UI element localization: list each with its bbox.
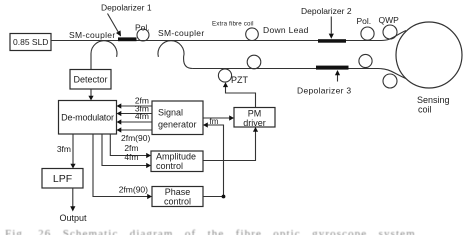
svg-text:Depolarizer 1: Depolarizer 1 — [101, 3, 152, 13]
arrowhead: detector to de-modulator — [88, 96, 93, 101]
wire: amplitude control output to PM driver bottom — [203, 132, 256, 161]
PM driver box — [234, 108, 275, 128]
arrowhead: into de-modulator 2fm — [117, 103, 122, 108]
svg-text:Signal: Signal — [158, 108, 183, 118]
svg-text:LPF: LPF — [53, 173, 72, 185]
arrowhead: into de-modulator 2fm(90) — [117, 127, 122, 132]
QWP loop (lower) — [383, 74, 397, 88]
wire: detector to de-modulator — [90, 89, 92, 97]
svg-text:Down Lead: Down Lead — [263, 25, 309, 35]
depolarizer D1 bar — [118, 37, 137, 41]
svg-text:4fm: 4fm — [124, 152, 138, 162]
wire: LPF to output — [72, 188, 74, 207]
svg-text:QWP: QWP — [379, 15, 400, 25]
wire: SLD output to coupler1 / top fiber line to sensing coil — [51, 31, 406, 41]
arrowhead: into PM driver bottom — [253, 127, 258, 132]
svg-text:Amplitude: Amplitude — [156, 152, 196, 162]
polarizer loop Pol1 — [137, 29, 149, 41]
Detector box — [70, 70, 111, 90]
svg-text:generator: generator — [158, 120, 197, 130]
depolarizer 3 pointer line — [337, 75, 339, 82]
svg-text:PM: PM — [248, 109, 262, 119]
svg-text:Depolarizer 2: Depolarizer 2 — [301, 6, 352, 16]
arrowhead: fm into signal generator — [203, 122, 208, 127]
arrowhead: depolarizer 1 pointer — [116, 30, 121, 36]
SM-coupler 1 (fiber coupler arc with drop to detector) — [91, 41, 117, 70]
arrowhead: depolarizer 3 pointer — [335, 70, 340, 75]
Signal generator box — [152, 101, 203, 135]
wire: phase control output to feedback node — [203, 196, 224, 198]
depolarizer 2 pointer line — [330, 17, 332, 34]
svg-text:De-modulator: De-modulator — [61, 113, 114, 123]
depolarizer 1 pointer line — [108, 14, 119, 33]
junction node: phase control feedback — [222, 195, 226, 199]
wire: lower fiber line from coupler2 to sensing coil — [193, 69, 406, 79]
svg-text:Pol.: Pol. — [357, 16, 372, 26]
svg-text:Pol.: Pol. — [135, 23, 150, 33]
svg-text:Phase: Phase — [165, 187, 191, 197]
svg-text:coil: coil — [418, 105, 432, 115]
arrowhead: into de-modulator 4fm — [117, 119, 122, 124]
svg-text:0.85 SLD: 0.85 SLD — [13, 37, 48, 47]
svg-text:Depolarizer 3: Depolarizer 3 — [297, 86, 351, 96]
arrowhead: into phase control — [147, 194, 152, 199]
extra fibre coil loop (top line) — [246, 28, 259, 41]
arrowhead: into LPF — [70, 164, 75, 169]
wire: de-modulator 2fm(90) to phase control — [93, 134, 148, 197]
wire: signal generator to PM driver — [203, 117, 230, 119]
Amplitude control box — [151, 151, 203, 172]
wire: de-modulator 4fm to amplitude control — [102, 134, 147, 166]
svg-text:Output: Output — [59, 213, 87, 223]
wire: signal generator 2fm to de-modulator — [121, 105, 152, 107]
SM-coupler 2 (fiber coupler arc joining lower line) — [158, 41, 193, 69]
depolarizer D3 bar — [316, 66, 349, 70]
fibre loop on lower line — [247, 55, 261, 69]
LPF box — [42, 169, 83, 189]
svg-text:2fm(90): 2fm(90) — [121, 133, 150, 143]
wire: de-modulator 3fm to LPF — [72, 134, 74, 164]
svg-text:PZT: PZT — [231, 75, 249, 85]
svg-text:Sensing: Sensing — [417, 95, 450, 105]
arrowhead: into PM driver left — [229, 115, 234, 120]
svg-text:3fm: 3fm — [57, 144, 71, 154]
polarizer loop (lower right) — [359, 54, 372, 67]
svg-text:Detector: Detector — [73, 75, 107, 85]
svg-text:control: control — [156, 161, 183, 171]
arrowhead: output — [70, 206, 75, 211]
svg-text:Fig. 26 Schematic diagram of t: Fig. 26 Schematic diagram of the fibre o… — [5, 228, 416, 235]
wire: phase control feedback fm into signal generator — [208, 125, 224, 197]
sensing coil (fiber loop) — [396, 22, 462, 88]
svg-text:2fm(90): 2fm(90) — [119, 185, 148, 195]
SLD source box U1 — [10, 34, 51, 51]
svg-text:4fm: 4fm — [135, 111, 149, 121]
wire: signal generator 3fm to de-modulator — [121, 113, 152, 115]
wire: signal generator 4fm to de-modulator — [121, 121, 152, 123]
De-modulator box — [59, 101, 117, 135]
svg-text:SM-coupler: SM-coupler — [69, 30, 115, 40]
svg-text:SM-coupler: SM-coupler — [158, 28, 204, 38]
PZT transducer loop — [218, 69, 231, 82]
arrowhead: into de-modulator 3fm — [117, 111, 122, 116]
depolarizer D2 bar — [318, 39, 346, 43]
polarizer loop Pol2 (top right) — [361, 27, 374, 40]
svg-text:Extra fibre coil: Extra fibre coil — [212, 21, 254, 28]
wire: PM driver output to PZT — [226, 87, 256, 108]
arrowhead: into PZT — [223, 82, 228, 87]
svg-text:fm: fm — [210, 117, 219, 126]
Phase control box — [152, 187, 203, 207]
wire: de-modulator 2fm to amplitude control — [110, 134, 146, 156]
arrowhead: into amplitude control 4fm — [146, 163, 151, 168]
wire: signal generator 2fm(90) to de-modulator — [121, 129, 152, 131]
QWP loop (top) — [383, 25, 397, 39]
arrowhead: into amplitude control 2fm — [146, 153, 151, 158]
svg-text:control: control — [164, 197, 191, 207]
arrowhead: depolarizer 2 pointer — [329, 34, 334, 39]
svg-text:driver: driver — [243, 118, 266, 128]
